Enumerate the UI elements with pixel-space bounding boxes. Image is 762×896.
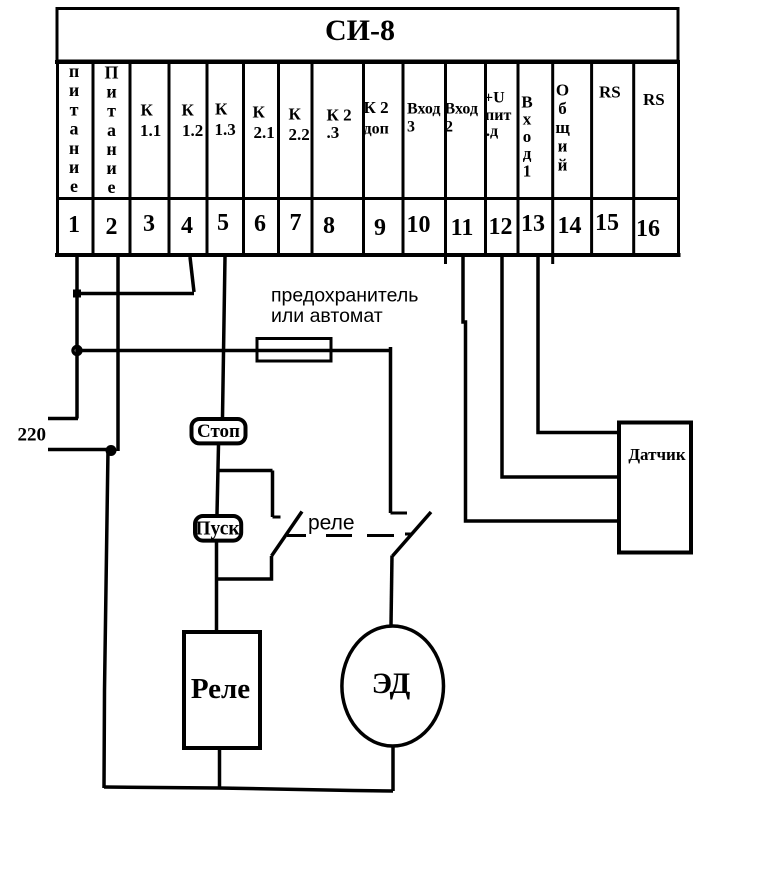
svg-text:13: 13 [521,211,545,237]
wire phase drop to motor contact [389,347,393,513]
svg-text:ЭД: ЭД [372,667,411,700]
sensor Датчик [619,423,691,553]
svg-text:1: 1 [68,212,80,238]
svg-text:3: 3 [143,211,155,237]
wire from terminal 4 down [190,257,194,292]
motor ЭД [342,626,444,746]
svg-text:Стоп: Стоп [197,421,240,442]
wire from terminal 2 down [116,257,120,451]
wire from terminal 5 down to Стоп [223,257,226,417]
bypass contact top lead [271,471,275,518]
fuse F1 [257,339,331,362]
wire 220 lower lead [48,448,112,452]
wire Стоп to Пуск [217,445,219,514]
button Стоп [192,419,246,443]
svg-text:6: 6 [254,211,266,237]
wire Реле to bottom rail [218,750,222,789]
terminal strip grid [55,62,681,255]
svg-text:7: 7 [290,210,302,236]
relay coil Реле [184,632,260,748]
svg-text:реле: реле [308,512,355,535]
svg-text:питание: питание [69,61,79,196]
wire 220 upper lead [48,417,78,421]
bypass contact tick [273,516,281,519]
svg-text:Реле: Реле [191,673,250,705]
svg-text:RS: RS [599,83,621,102]
wire Пуск to Реле [215,543,219,631]
wire contact to motor [391,556,392,626]
junction circle on phase [73,347,81,355]
svg-text:5: 5 [217,210,229,236]
svg-text:Вход1: Вход1 [521,93,532,181]
wire link terminal1 to terminal4 [77,292,194,296]
svg-text:12: 12 [489,214,513,240]
svg-text:11: 11 [451,215,474,241]
stub below border 10|11 [444,255,447,264]
svg-text:RS: RS [643,90,665,109]
motor contact blade [393,512,432,556]
svg-text:2: 2 [106,214,118,240]
stub below border 13|14 [551,257,554,264]
wire from terminal 13 to sensor [538,257,617,433]
button Пуск [195,516,241,541]
svg-text:10: 10 [407,212,431,238]
motor contact tick [391,512,408,515]
svg-text:или автомат: или автомат [271,305,383,327]
svg-text:15: 15 [595,210,619,236]
svg-text:Датчик: Датчик [628,445,685,464]
junction dot 220 neutral [106,445,117,456]
terminal numbers 1-16 [68,210,660,242]
svg-text:4: 4 [181,213,193,239]
wire motor to bottom rail [391,748,395,792]
wire phase fuse line [77,349,391,353]
svg-text:предохранитель: предохранитель [271,285,418,307]
bypass bottom lead [217,556,272,579]
device box СИ-8 [55,9,680,63]
wire from terminal 12 to sensor [502,257,617,477]
svg-text:14: 14 [558,213,582,239]
dashed mechanical link [287,534,412,536]
wire from terminal 1 down [75,257,79,419]
svg-text:8: 8 [323,213,335,239]
junction dot link [73,290,81,298]
bottom rail [104,787,393,791]
svg-text:СИ-8: СИ-8 [325,14,395,47]
bypass contact blade [272,512,303,557]
svg-text:Пуск: Пуск [195,519,240,540]
wire from terminal 11 to sensor [463,257,617,521]
svg-text:16: 16 [636,216,660,242]
wire neutral down to bottom rail [104,450,108,788]
wire branch to bypass contact [219,469,273,473]
svg-text:9: 9 [374,215,386,241]
svg-text:220: 220 [18,425,47,446]
